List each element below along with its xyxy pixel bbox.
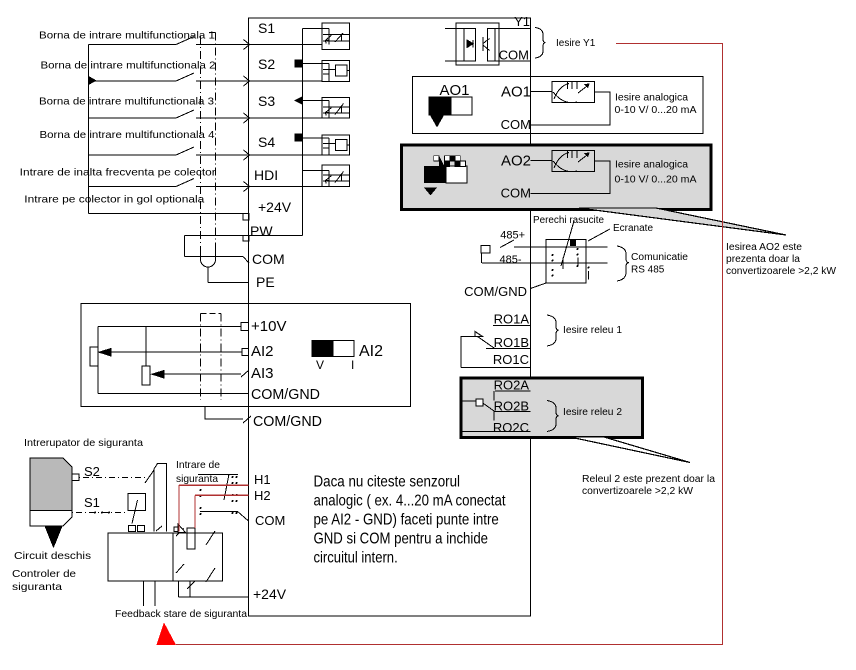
svg-text:S1: S1 [258,20,275,36]
svg-text:Perechi rasucite: Perechi rasucite [533,215,604,226]
svg-text:pe AI2 - GND) faceti punte int: pe AI2 - GND) faceti punte intre [314,512,499,529]
svg-text:COM/GND: COM/GND [253,413,322,430]
svg-text:I: I [351,358,354,372]
svg-text:Intrare de inalta frecventa pe: Intrare de inalta frecventa pe colector [20,167,217,179]
svg-text:485-: 485- [499,254,521,266]
svg-text:COM: COM [255,513,285,528]
svg-text:Intrare pe colector in gol opt: Intrare pe colector in gol optionala [24,194,204,206]
svg-text:PE: PE [256,274,275,290]
svg-text:HDI: HDI [254,167,278,183]
svg-text:Iesire Y1: Iesire Y1 [556,38,596,49]
svg-text:Circuit deschis: Circuit deschis [14,550,91,562]
svg-text:Ecranate: Ecranate [613,223,653,234]
svg-text:Borna de intrare multifunction: Borna de intrare multifunctionala 2 [41,60,216,72]
svg-text:S3: S3 [258,93,275,109]
svg-text:+24V: +24V [258,199,292,215]
svg-text:Borna de intrare multifunction: Borna de intrare multifunctionala 1 [39,30,215,42]
svg-text:circuitul intern.: circuitul intern. [314,550,398,567]
svg-text:siguranta: siguranta [176,473,218,485]
svg-text:Y1: Y1 [514,14,530,29]
svg-text:COM: COM [501,117,531,132]
svg-text:COM/GND: COM/GND [464,284,527,299]
svg-text:RS 485: RS 485 [631,265,665,276]
svg-text:AI2: AI2 [251,343,274,360]
svg-text:Iesirea AO2 este: Iesirea AO2 este [726,242,802,253]
svg-text:S2: S2 [258,56,275,72]
svg-text:siguranta: siguranta [12,581,62,593]
svg-text:0-10 V/ 0...20 mA: 0-10 V/ 0...20 mA [615,175,697,186]
svg-text:485+: 485+ [500,230,525,242]
svg-text:RO2C: RO2C [493,420,529,435]
svg-text:analogic ( ex. 4...20 mA conec: analogic ( ex. 4...20 mA conectat [314,493,506,510]
svg-text:AO2: AO2 [501,153,531,170]
svg-text:S1: S1 [84,495,100,510]
svg-text:COM: COM [501,186,531,201]
svg-text:Comunicatie: Comunicatie [631,252,688,263]
svg-text:RO2A: RO2A [494,378,530,393]
svg-text:COM/GND: COM/GND [251,386,320,403]
svg-text:Borna de intrare multifunction: Borna de intrare multifunctionala 4 [40,129,215,141]
svg-text:H1: H1 [254,472,271,487]
svg-text:COM: COM [252,251,285,267]
svg-text:+10V: +10V [251,318,286,335]
svg-text:convertizoarele >2,2 kW: convertizoarele >2,2 kW [726,266,837,277]
svg-text:RO1A: RO1A [494,312,530,327]
svg-text:GND si COM pentru a inchide: GND si COM pentru a inchide [314,531,489,548]
svg-text:AO1: AO1 [439,82,469,99]
svg-text:PW: PW [250,223,273,239]
svg-text:H2: H2 [254,488,271,503]
svg-text:S2: S2 [84,464,100,479]
svg-text:Intrare de: Intrare de [176,459,220,471]
svg-text:Intrerupator de siguranta: Intrerupator de siguranta [24,437,143,449]
svg-text:AI3: AI3 [251,365,274,382]
svg-text:Daca nu citeste senzorul: Daca nu citeste senzorul [314,474,461,491]
svg-text:AO1: AO1 [501,84,531,101]
svg-text:Feedback stare de siguranta: Feedback stare de siguranta [115,608,247,620]
svg-text:Releul 2 este prezent doar la: Releul 2 este prezent doar la [582,474,715,485]
svg-text:Borna de intrare multifunction: Borna de intrare multifunctionala 3 [39,96,214,108]
svg-text:RO1B: RO1B [494,335,529,350]
svg-text:Iesire releu 2: Iesire releu 2 [563,407,622,418]
svg-text:COM: COM [499,48,529,63]
svg-text:0-10 V/ 0...20 mA: 0-10 V/ 0...20 mA [615,105,697,116]
svg-text:RO2B: RO2B [494,399,529,414]
svg-text:prezenta doar la: prezenta doar la [726,254,800,265]
svg-text:S4: S4 [258,134,275,150]
svg-text:Iesire analogica: Iesire analogica [615,160,688,171]
svg-text:AI2: AI2 [359,343,383,360]
svg-text:Controler de: Controler de [12,568,76,580]
svg-text:Iesire releu 1: Iesire releu 1 [563,325,622,336]
svg-text:RO1C: RO1C [493,352,529,367]
svg-text:+24V: +24V [253,586,287,602]
svg-text:V: V [316,358,324,372]
svg-text:Iesire analogica: Iesire analogica [615,93,688,104]
svg-text:convertizoarele >2,2 kW: convertizoarele >2,2 kW [582,486,694,497]
